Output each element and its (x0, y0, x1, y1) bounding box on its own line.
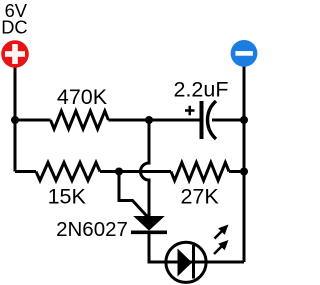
wire LED row (165, 261, 245, 264)
svg-text:DC: DC (1, 16, 27, 37)
junction dot gate node (115, 168, 123, 176)
LED light arrow upper (215, 225, 229, 239)
wire gate lead from node down and into PUT (119, 172, 150, 220)
LED light arrow lower (214, 240, 229, 254)
svg-text:2N6027: 2N6027 (56, 218, 128, 241)
wire from 470K to center node (108, 119, 149, 122)
wire capacitor to right rail (212, 119, 244, 122)
resistor R3 27K (171, 163, 229, 181)
junction dot center cap node (145, 116, 153, 124)
transistor Q1 2N6027 PUT anode triangle (135, 217, 164, 231)
svg-text:2.2uF: 2.2uF (174, 77, 229, 101)
junction dot left 470K node (11, 116, 19, 124)
wire center node down to PUT anode with hop over middle row (141, 120, 150, 217)
wire PUT cathode down to LED row (149, 232, 165, 262)
battery positive terminal (1, 40, 29, 68)
wire 27K to right rail (229, 170, 244, 173)
wire right rail (243, 53, 246, 262)
capacitor C1 2.2uF (202, 101, 217, 139)
wire top row (470K/cap row) (15, 119, 51, 122)
svg-text:15K: 15K (48, 185, 87, 209)
wire center node to capacitor (149, 119, 202, 122)
transistor Q1 cathode bar (131, 231, 167, 235)
junction dot right cap node (240, 116, 248, 124)
LED D1 triangle (178, 249, 193, 277)
resistor R2 15K (36, 163, 100, 181)
wire left rail (14, 54, 17, 172)
junction dot right 27K node (240, 168, 248, 176)
resistor R1 470K (51, 111, 109, 129)
svg-text:470K: 470K (57, 85, 108, 109)
wire 15K to gate node and across to 27K (100, 170, 171, 173)
wire middle row left segment (15, 170, 36, 173)
capacitor plus polarity mark (185, 106, 195, 116)
battery negative terminal (231, 40, 258, 67)
LED D1 circle (166, 242, 206, 282)
LED D1 cathode bar (192, 245, 195, 279)
svg-text:27K: 27K (180, 185, 219, 209)
